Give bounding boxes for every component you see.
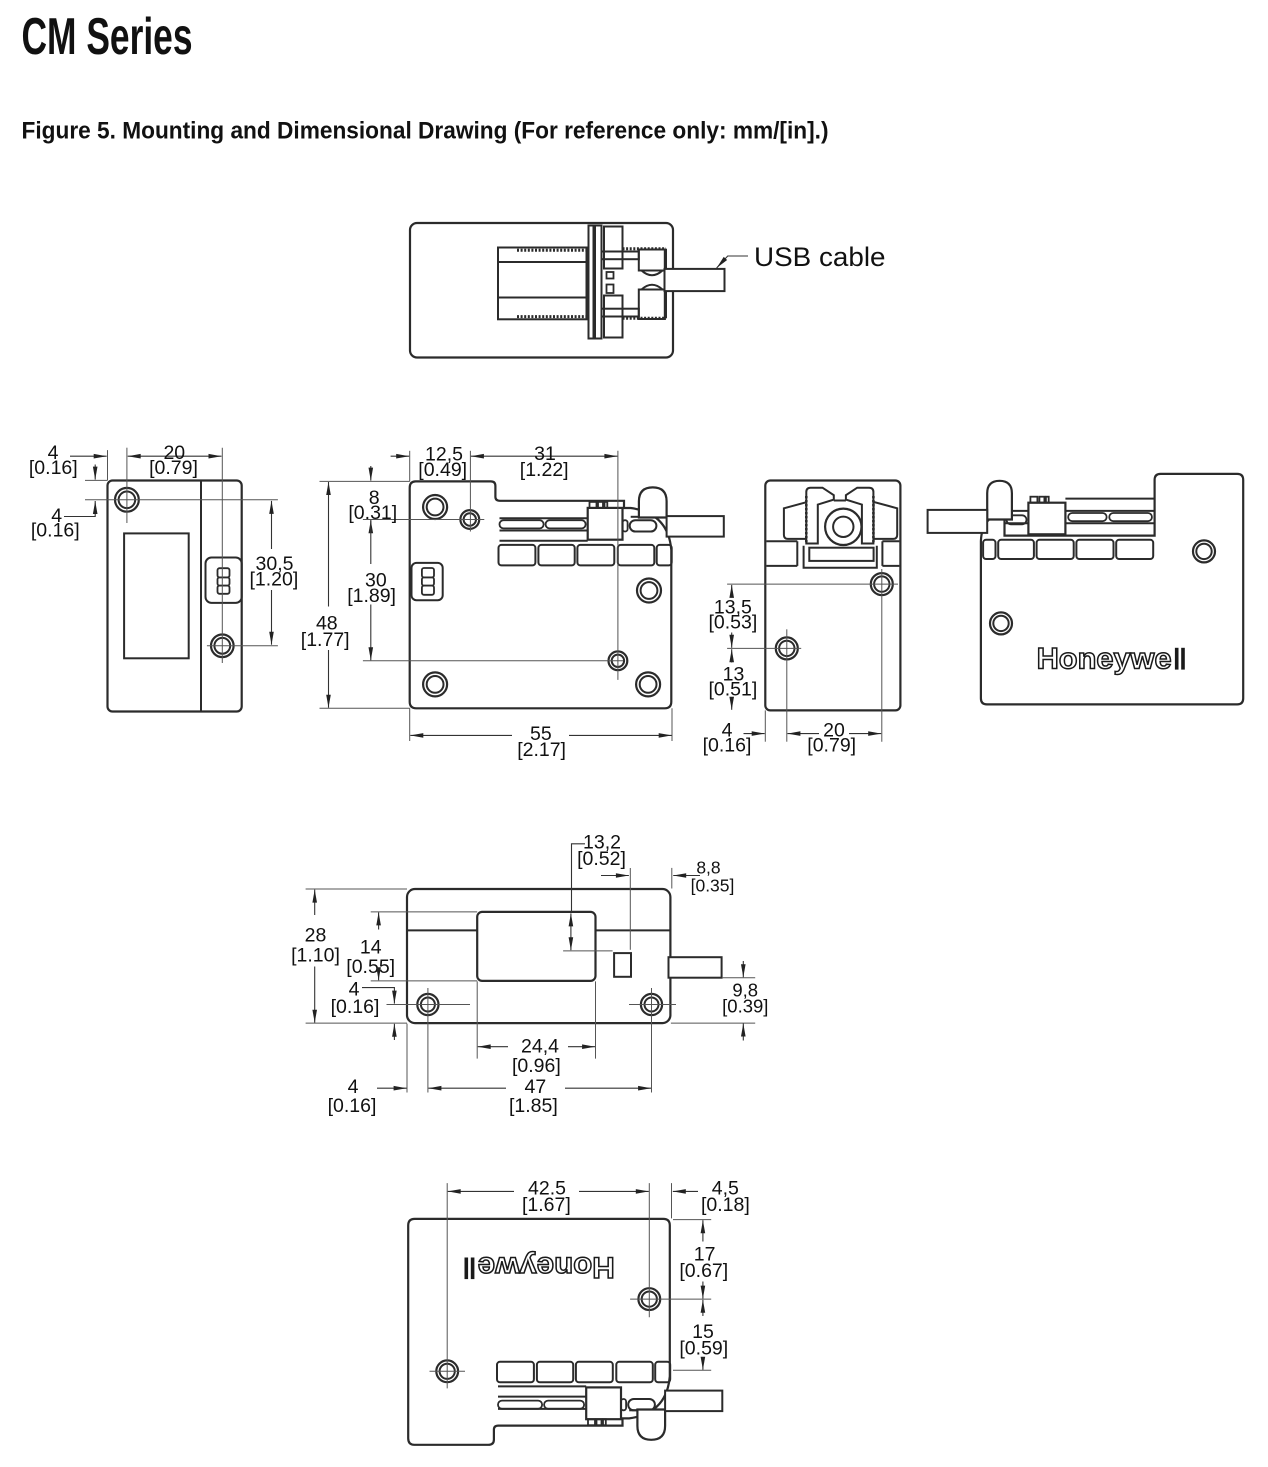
side view: dim 13 (731, 649, 733, 662)
rear view: rail line 2 (1006, 522, 1155, 524)
bottom view: dim 15 (702, 1300, 704, 1316)
svg-text:[0.16]: [0.16] (703, 735, 752, 757)
svg-text:[0.55]: [0.55] (346, 956, 395, 978)
bottom view: centerlines and ext (446, 1183, 448, 1388)
side view: left wing (784, 502, 808, 539)
front view: dim 48 (328, 482, 330, 607)
top view: joint serration bottom (623, 317, 667, 320)
rear view: rail slot 1 (1068, 513, 1106, 521)
bottom view: body silhouette (408, 1219, 670, 1445)
front view: rail slot 1 (500, 520, 544, 528)
front view: left connector bump (412, 563, 443, 600)
side view: hole right (871, 573, 893, 595)
bottom view: step line (629, 1409, 637, 1411)
left view: dim 20 line (128, 455, 222, 457)
front view: fin 1 (499, 545, 536, 566)
top view: cross arm top (602, 252, 639, 260)
top view: serration bottom (517, 315, 587, 318)
front view: strain relief tab (639, 487, 667, 517)
rear view: fins (983, 540, 995, 559)
left view: dim 4 left arrows (94, 465, 96, 480)
svg-text:[1.89]: [1.89] (347, 585, 396, 607)
left view: pin 3 (218, 586, 230, 594)
rear view: rail slot 2 (1109, 513, 1152, 521)
rear view: clamp teeth (1030, 497, 1037, 503)
mid view: dim 13,2 leader (572, 844, 586, 912)
top view: clamp bar C top (604, 227, 623, 269)
svg-text:[0.31]: [0.31] (348, 502, 397, 524)
side view: valley line (834, 500, 846, 502)
bottom view: usb cable (665, 1391, 722, 1412)
front view: hole mid-right (637, 579, 661, 603)
front view: dim 12,5 (391, 455, 410, 457)
left view: dim 4 top arrow (70, 455, 107, 457)
mid view: dim 8,8 (601, 875, 629, 877)
mid view: dim 28 (314, 890, 316, 915)
front view: dim 30 (370, 520, 372, 564)
side view: jaw serration right (872, 496, 875, 543)
mid view: centerlines (427, 988, 429, 1093)
top view: usb block top notch (642, 271, 663, 276)
bottom view: dim 4,5 (673, 1190, 698, 1192)
front view: usb cable (667, 516, 724, 537)
top view: usb block top (639, 250, 665, 271)
svg-text:[1.77]: [1.77] (301, 629, 350, 651)
side view: U bracket (804, 546, 877, 568)
mid view: dim 14 (378, 912, 380, 929)
svg-text:28: 28 (305, 925, 327, 947)
left view: centerline top hole vertical (126, 448, 128, 523)
top view: scanner body (plan) (410, 223, 673, 358)
side view: centerlines and ext (727, 583, 898, 585)
front view: dim 55 (410, 734, 512, 736)
svg-text:USB cable: USB cable (754, 242, 886, 272)
svg-text:Figure 5. Mounting and Dimensi: Figure 5. Mounting and Dimensional Drawi… (22, 118, 829, 145)
left view: top mounting hole (115, 488, 139, 512)
left view: bottom mounting hole (211, 635, 234, 658)
top view: clamp bar C bottom (604, 296, 623, 338)
svg-text:[2.17]: [2.17] (517, 739, 566, 761)
bottom view: dim 42.5 (448, 1190, 514, 1192)
top view: H-block upper (607, 272, 614, 279)
svg-text:[0.16]: [0.16] (331, 996, 380, 1018)
mid view: button (614, 953, 631, 977)
front view: dim 31 (471, 455, 618, 457)
svg-text:[0.67]: [0.67] (679, 1260, 728, 1282)
left view: ext left edge up (107, 450, 109, 480)
front view: dim 8 (370, 466, 372, 481)
side view: crossbar (809, 548, 873, 561)
mid view: ext lines (306, 888, 407, 890)
svg-text:Honeywe: Honeywe (1037, 643, 1172, 676)
top view: barrel housing (498, 248, 587, 320)
front view: rail line 1 (500, 517, 588, 519)
front view: body silhouette (410, 481, 672, 708)
left view: top hole horizontal line (85, 499, 278, 501)
mid view: cable (669, 957, 722, 978)
front view: hole bottom-right (636, 672, 660, 696)
front view: pins (422, 568, 434, 577)
side view: right ledge (882, 540, 899, 542)
svg-text:[1.67]: [1.67] (522, 1194, 571, 1216)
left view: body (108, 481, 242, 712)
svg-text:8,8: 8,8 (696, 858, 720, 878)
rear view: body silhouette (981, 474, 1243, 705)
mid view: hole left (417, 994, 438, 1015)
top view: H-block lower (607, 285, 614, 294)
rear view: strain relief tab (987, 481, 1012, 520)
svg-text:[0.16]: [0.16] (29, 457, 78, 479)
front view: fin 3 (577, 545, 614, 566)
svg-text:[0.53]: [0.53] (709, 612, 758, 634)
svg-text:[0.59]: [0.59] (679, 1338, 728, 1360)
front view: fin 5 (657, 545, 672, 566)
mid view: dim 4 bottom (377, 1087, 407, 1089)
left view: screen window (124, 533, 189, 658)
front view: stadium slot (630, 520, 657, 531)
rear view: hole right (1193, 540, 1215, 562)
left view: pin 2 (218, 577, 230, 585)
mid view: surface line right (596, 929, 671, 931)
svg-text:[1.22]: [1.22] (520, 459, 569, 481)
side view: screw inner (833, 517, 853, 537)
side view: dim 20 (787, 733, 819, 735)
top view: serration top (517, 249, 587, 252)
svg-text:[0.79]: [0.79] (807, 735, 856, 757)
top view: cross arm bottom (602, 309, 639, 317)
bottom view: clamp teeth (588, 1419, 595, 1425)
svg-text:[0.49]: [0.49] (418, 459, 467, 481)
front view: clamp block (588, 508, 623, 540)
svg-text:[0.52]: [0.52] (577, 848, 626, 870)
left view: bottom hole horizontal line (207, 645, 278, 647)
side view: right jaw (846, 488, 874, 544)
rear view: usb cable (928, 510, 988, 533)
top view: usb block bottom notch (642, 285, 663, 290)
side view: dim 4 (744, 733, 765, 735)
front view: step line under tab (631, 516, 639, 518)
top view: clamp bar B (595, 226, 602, 339)
svg-text:[1.85]: [1.85] (509, 1095, 558, 1117)
bottom view: dim 17 (702, 1220, 704, 1241)
svg-text:Honeywe: Honeywe (478, 1251, 615, 1284)
bottom view: hole right (638, 1288, 660, 1310)
top view: joint serration top (623, 247, 667, 250)
top view: inner edge line (665, 249, 667, 269)
svg-text:[0.51]: [0.51] (709, 679, 758, 701)
side view: screw outer (825, 509, 861, 545)
svg-text:[0.39]: [0.39] (722, 996, 768, 1017)
svg-text:[0.16]: [0.16] (31, 520, 80, 542)
rear view: clamp block (1028, 503, 1065, 535)
mid view: dim 9,8 (742, 961, 744, 977)
left view: divider line (200, 481, 202, 712)
bottom view: hole left (436, 1360, 458, 1382)
front view: small slot (623, 520, 628, 531)
top view: clamp bar A (589, 226, 594, 339)
front view: ext lines (409, 451, 411, 482)
left view: pin 1 (218, 568, 230, 577)
svg-text:[1.10]: [1.10] (291, 945, 340, 967)
mid view: raised window (477, 912, 595, 981)
bottom view: rail slot 2 (544, 1401, 584, 1409)
side view: left jaw (806, 488, 834, 544)
top view: usb cable (665, 269, 725, 291)
bottom view: rail slot 1 (498, 1401, 542, 1409)
front view: rail bottom line (500, 540, 588, 542)
svg-text:[0.96]: [0.96] (512, 1055, 561, 1077)
svg-text:[0.18]: [0.18] (701, 1194, 750, 1216)
bottom view: strain relief tab (637, 1410, 665, 1440)
svg-text:[0.35]: [0.35] (691, 876, 735, 896)
rear view: rail line 1 (1006, 510, 1155, 512)
front view: fin 4 (618, 545, 655, 566)
side view: jaw serration left (805, 496, 808, 543)
svg-text:CM Series: CM Series (22, 7, 193, 65)
bottom view: fins (497, 1362, 534, 1383)
rear view: hole left (990, 612, 1012, 634)
bottom view: rail top line (498, 1385, 586, 1387)
side view: body (765, 481, 900, 711)
side view: right wing (874, 502, 898, 539)
side view: left ledge (766, 540, 797, 542)
front view: hole bottom-left (423, 672, 447, 696)
mid view: dim 4 left (362, 988, 394, 1004)
front view: small hole bottom (609, 651, 628, 670)
bottom view: clamp block (586, 1387, 621, 1419)
mid view: body (407, 889, 670, 1023)
front view: clamp teeth (590, 502, 597, 508)
mid view: hole right (641, 994, 662, 1015)
left view: connector bump (206, 558, 242, 603)
front view: small hole top (460, 510, 479, 529)
top view: barrel inner line lower (498, 297, 587, 299)
svg-text:[0.79]: [0.79] (149, 457, 198, 479)
front view: rail line 2 (500, 530, 588, 532)
left view: ext top edge left (85, 479, 108, 481)
bottom view: stadium slot (628, 1399, 655, 1410)
mid view: dim 47 (428, 1087, 506, 1089)
left view: dim 30,5 arrows (271, 501, 273, 549)
mid view: surface line left (407, 929, 477, 931)
mid view: dim 24,4 (478, 1046, 508, 1048)
svg-text:[1.20]: [1.20] (250, 569, 299, 591)
top view: barrel inner line upper (498, 261, 587, 263)
side view: hole left (776, 637, 798, 659)
svg-text:[0.16]: [0.16] (328, 1095, 377, 1117)
front view: fin 2 (538, 545, 574, 566)
top view: usb block bottom (639, 290, 665, 320)
bottom view: Honeywell logo rotated (465, 1251, 615, 1284)
rear view: rail arm top (1065, 498, 1154, 500)
side view: dim 13,5 (731, 585, 733, 598)
bottom view: rail line 1 (498, 1408, 586, 1410)
top view: usb cable leader (717, 256, 748, 268)
front view: rail slot 2 (546, 520, 586, 528)
bottom view: rail line 2 (498, 1396, 586, 1398)
left view: centerline connector (221, 448, 223, 663)
front view: hole top-left (423, 495, 447, 519)
rear view: small stadium slot (1007, 515, 1027, 524)
bottom view: small slot (621, 1399, 626, 1410)
